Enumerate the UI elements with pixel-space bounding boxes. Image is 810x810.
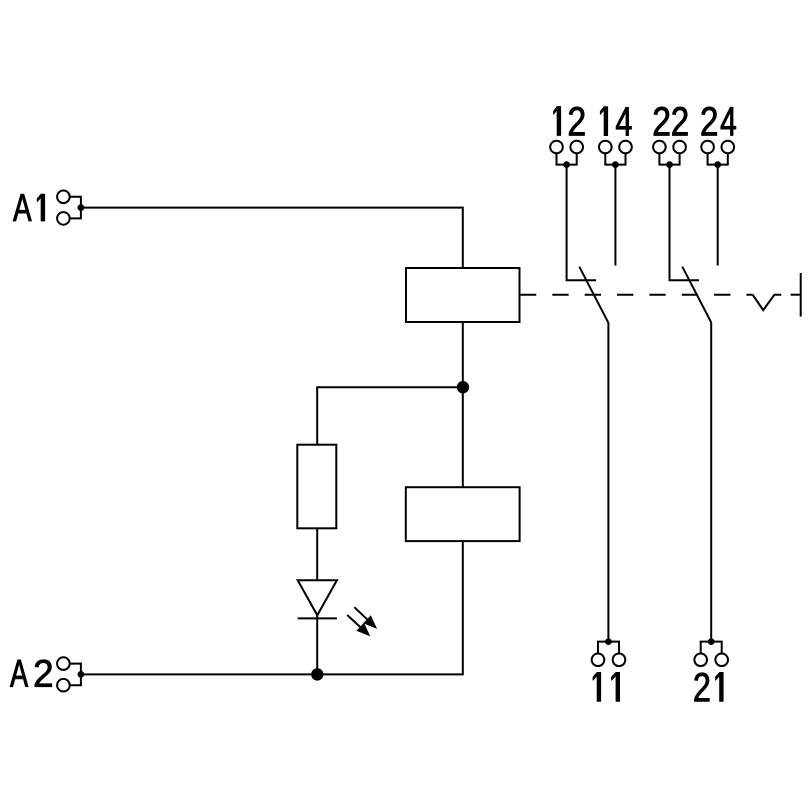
contact 1 NO wire from 14 [614,165,616,266]
mechanical link V notch [753,295,782,310]
resistor R1 [297,445,336,529]
protection block rect [406,487,520,541]
wire LED to A2 line [316,615,318,674]
label 11 [593,672,620,701]
contact 1 blade [579,267,608,323]
relay coil K1 [406,268,520,322]
LED V1 diode triangle [298,580,337,615]
contact 1 common wire to 11 [607,322,609,641]
wire coil bottom to block [462,322,464,487]
terminal A1 [57,191,84,225]
terminal 21 [694,638,728,666]
wire node to resistor [317,387,463,445]
dash before bar [791,294,800,296]
terminal 14 [599,141,632,168]
node junction LED/A2 [311,668,323,680]
dashed actuation line [520,294,753,296]
label 22 [654,107,688,136]
terminal 24 [701,141,734,168]
wire resistor to LED [316,528,318,580]
terminal 11 [592,638,626,666]
wire A1 to coil [81,208,463,268]
label A1 [13,194,45,221]
terminal 12 [550,141,583,168]
label 21 [695,672,724,701]
wire A2 line to rect K1 bottom [81,541,463,674]
contact 2 common wire to 21 [710,322,712,641]
label 14 [600,107,631,136]
contact 2 NC wire from 22 [670,165,700,281]
contact 2 NO wire from 24 [717,165,719,266]
contact 1 NC wire from 12 [567,165,596,281]
node junction coil/resistor [457,381,469,393]
LED light arrow 2 [347,615,370,636]
end bar [800,273,802,317]
LED cathode bar [298,617,337,619]
terminal A2 [57,657,84,691]
label 12 [554,107,585,136]
LED light arrow 1 [354,607,377,629]
terminal 22 [653,141,686,168]
contact 2 blade [682,267,711,323]
label 24 [702,107,736,136]
label A2 [10,660,52,687]
